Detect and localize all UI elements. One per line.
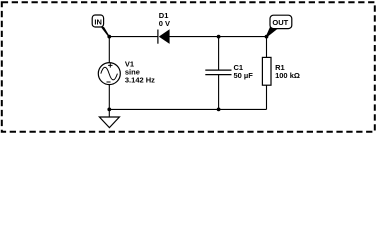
junction: C1 bottom on ground net [217,108,221,112]
wire: V1 - terminal down to ground node [108,85,110,110]
capacitor C1 (parallel plates) [205,70,231,75]
node OUT flag [266,15,292,37]
wire: IN junction down to V1 + terminal [108,37,110,63]
junction: node IN at top wire [107,35,111,39]
wire: C1 bottom lead [218,75,220,110]
wire: C1 top lead [218,37,220,70]
ground symbol [99,109,119,127]
junction: C1 top on node OUT net [217,35,221,39]
svg-text:0 V: 0 V [159,19,170,28]
svg-text:3.142 Hz: 3.142 Hz [125,76,155,85]
resistor R1 (box symbol) [262,57,271,85]
wire: bottom ground net [109,108,266,110]
svg-text:IN: IN [94,17,102,26]
diode D1 (cathode bar left, filled triangle pointing left) [158,29,170,44]
node IN flag [92,15,109,37]
wire: R1 bottom lead [266,85,268,109]
wire: top net, D1 to C1/OUT junctions [170,36,267,38]
junction: R1 top / OUT flag [265,35,269,39]
svg-text:OUT: OUT [272,18,288,27]
svg-text:100 kΩ: 100 kΩ [275,71,300,80]
wire: top net, IN junction to D1 anode [109,36,158,38]
junction: ground node under V1 [107,108,111,112]
voltage source V1 (sine symbol) [98,63,120,85]
svg-text:50 µF: 50 µF [234,71,254,80]
wire: R1 top lead [266,37,268,58]
